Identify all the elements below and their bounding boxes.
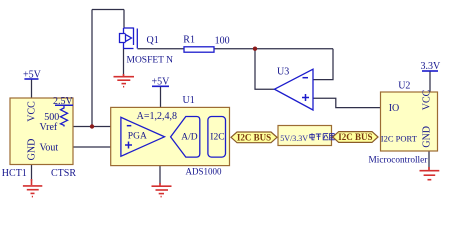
svg-text:500: 500 xyxy=(44,112,59,123)
svg-text:A/D: A/D xyxy=(181,133,198,143)
wire R1 to U3 top xyxy=(214,48,333,50)
ground (HCT1) xyxy=(23,179,42,197)
svg-text:A=1,2,4,8: A=1,2,4,8 xyxy=(137,111,177,122)
power +5V (U1) xyxy=(152,77,171,88)
node junction dot R1/U3 xyxy=(253,47,257,51)
wire Q1 source to ground xyxy=(123,49,125,77)
svg-text:R1: R1 xyxy=(183,34,195,45)
node junction dot Vref xyxy=(90,124,94,128)
component HCT1 body xyxy=(10,98,73,165)
wire Vref HCT1 to U1 xyxy=(63,126,121,128)
power 2.5V (Vref divider) xyxy=(53,96,74,107)
PGA minus sign xyxy=(127,125,132,127)
U3 plus sign xyxy=(302,94,309,101)
microcontroller U2 body xyxy=(381,92,438,151)
svg-text:Vref: Vref xyxy=(40,122,58,133)
wire 3.3V to U2 VCC xyxy=(429,71,431,92)
svg-text:U1: U1 xyxy=(183,95,195,106)
svg-text:I2C PORT: I2C PORT xyxy=(381,133,418,143)
svg-text:VCC: VCC xyxy=(27,101,38,122)
svg-text:IO: IO xyxy=(389,103,400,114)
resistor R1 xyxy=(184,47,214,52)
op-amp U1 ADS1000 body xyxy=(111,107,230,165)
svg-text:PGA: PGA xyxy=(128,131,147,141)
net label I2C BUS (left hexagon) xyxy=(231,132,277,143)
A/D converter block xyxy=(171,117,200,158)
ground (U1) xyxy=(152,183,172,197)
U3 minus sign xyxy=(303,77,309,79)
wire drain drop to Q1 xyxy=(123,10,125,29)
ground (U2) xyxy=(420,167,440,180)
wire U3 plus to U2 IO xyxy=(313,98,381,107)
svg-text:GND: GND xyxy=(27,139,38,161)
op-amp U3 xyxy=(275,69,314,110)
I2C block xyxy=(208,117,226,158)
svg-text:100: 100 xyxy=(215,35,230,46)
hand-drawn CJK: dian ping pi pei xyxy=(310,133,334,140)
svg-text:MOSFET N: MOSFET N xyxy=(127,56,174,66)
svg-text:U3: U3 xyxy=(277,67,289,78)
wire U3 minus input xyxy=(313,49,333,80)
wire U1 GND stem xyxy=(159,166,161,184)
svg-text:HCT1: HCT1 xyxy=(2,168,27,179)
power +5V (HCT1) xyxy=(23,70,42,81)
transistor Q1 MOSFET N xyxy=(120,28,138,49)
svg-text:ADS1000: ADS1000 xyxy=(186,167,223,177)
svg-text:CTSR: CTSR xyxy=(51,168,76,179)
wire +5V to HCT1 VCC xyxy=(31,79,33,99)
svg-text:5V/3.3V: 5V/3.3V xyxy=(280,134,308,143)
svg-text:VCC: VCC xyxy=(422,89,433,110)
svg-text:Vout: Vout xyxy=(40,142,59,153)
PGA plus sign xyxy=(125,142,132,149)
svg-text:GND: GND xyxy=(422,126,433,148)
level adapter box 5V/3.3V xyxy=(278,126,332,146)
svg-text:3.3V: 3.3V xyxy=(421,61,442,72)
wire top loop horizontal xyxy=(92,9,124,11)
wire Q1 to R1 xyxy=(138,48,185,50)
amplifier PGA triangle xyxy=(121,117,165,156)
ground (under Q1) xyxy=(114,74,135,87)
power 3.3V (U2) xyxy=(421,61,442,72)
net label I2C BUS (right hexagon) xyxy=(333,132,378,143)
wire +5V to U1 VDD xyxy=(160,86,162,107)
wire Vout HCT1 to U1 xyxy=(63,146,121,148)
svg-text:I2C: I2C xyxy=(210,133,224,143)
svg-text:I2C BUS: I2C BUS xyxy=(237,132,271,142)
resistor 500 zigzag xyxy=(61,105,68,126)
svg-text:U2: U2 xyxy=(398,80,410,91)
wire HCT1 GND stem xyxy=(31,165,33,182)
wire U2 GND stem xyxy=(428,151,430,170)
wire left vertical to Vref node xyxy=(91,10,93,127)
svg-text:I2C BUS: I2C BUS xyxy=(338,132,372,142)
wire U3 feedback vertical xyxy=(255,49,275,89)
svg-text:Q1: Q1 xyxy=(147,35,159,46)
svg-text:Microcontroller: Microcontroller xyxy=(369,155,429,165)
